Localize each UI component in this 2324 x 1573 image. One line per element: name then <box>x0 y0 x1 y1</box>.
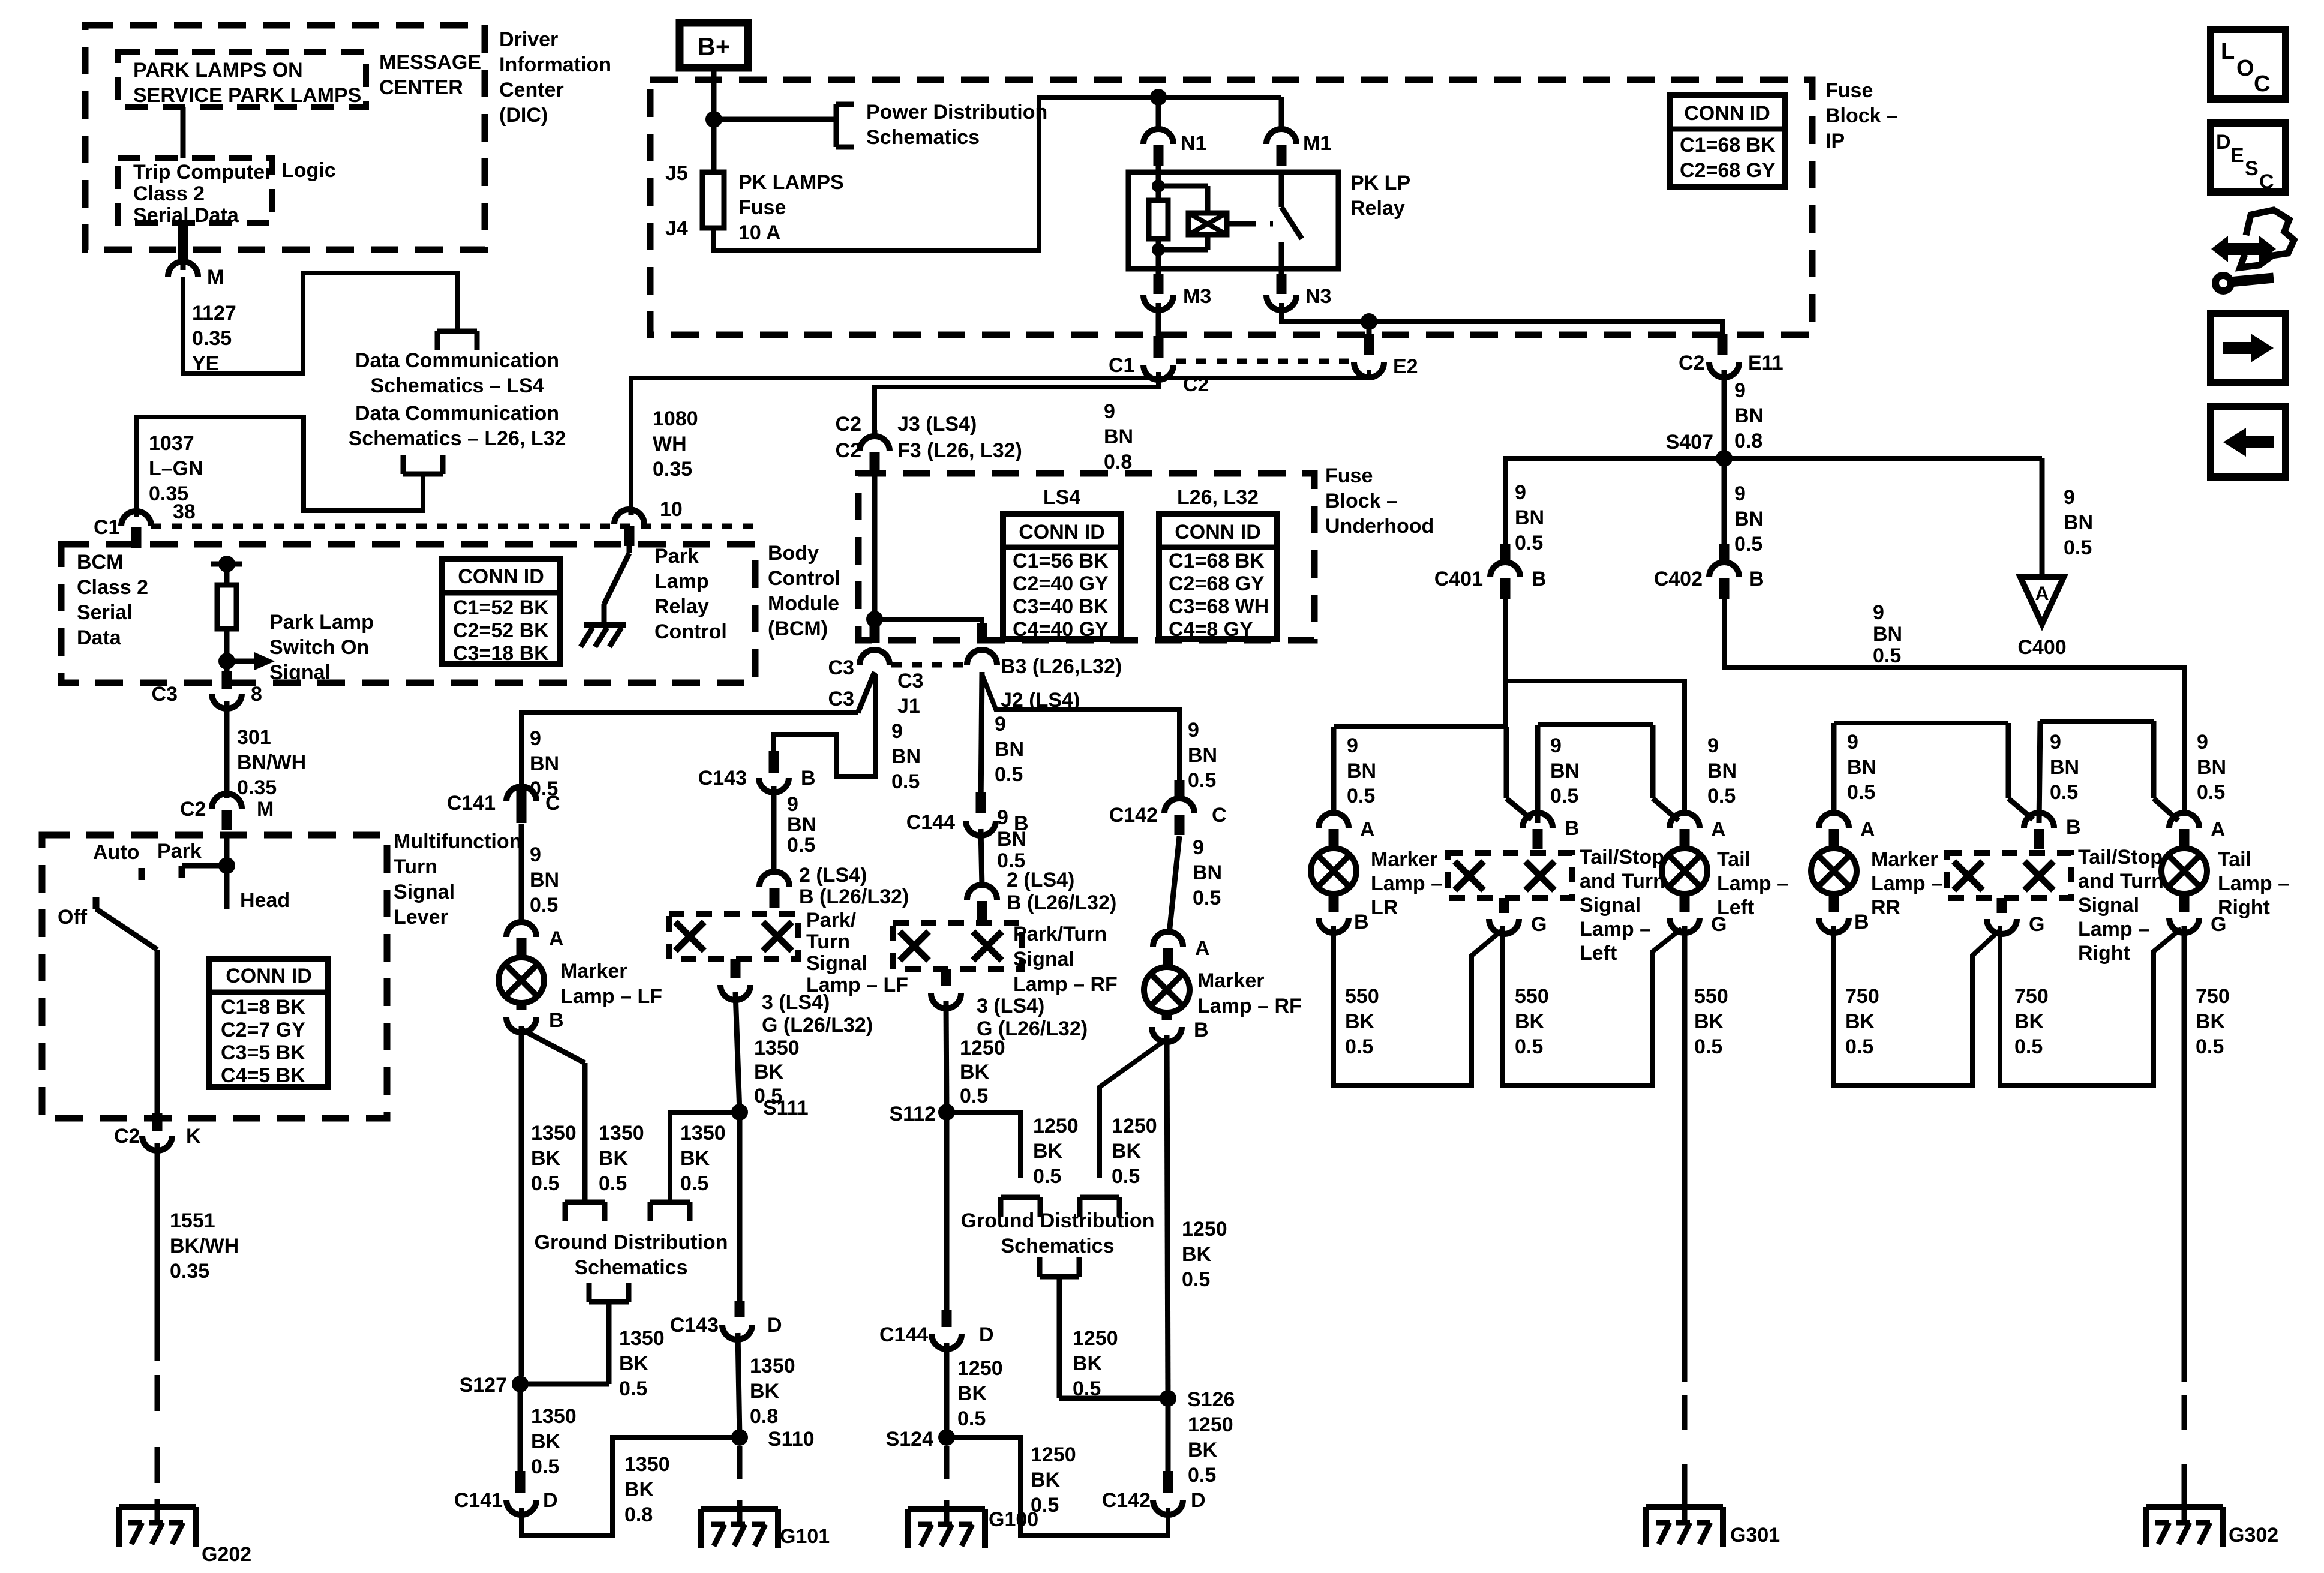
connector G park/turn LF <box>720 959 750 1000</box>
svg-text:9: 9 <box>1873 601 1884 624</box>
svg-text:BN: BN <box>530 752 559 775</box>
label wire 9 BN 0.5 rear2 <box>1550 734 1580 807</box>
wire C141 to marker A <box>519 824 524 924</box>
svg-text:BN: BN <box>1847 756 1876 779</box>
svg-text:PK LP: PK LP <box>1350 172 1410 194</box>
connector N3 of relay <box>1266 269 1331 310</box>
svg-text:C141: C141 <box>454 1489 503 1512</box>
wire relay coil top <box>1156 166 1161 200</box>
label wire 1350 BK 0.8 low <box>624 1453 670 1526</box>
label wire 1250 BK 0.5 C142D <box>1031 1443 1076 1517</box>
label Ground Distribution Schematics right <box>961 1209 1155 1257</box>
svg-text:CONN ID: CONN ID <box>458 565 544 588</box>
wire G RF to S112 <box>946 1001 947 1112</box>
svg-text:Tail/Stop: Tail/Stop <box>1580 846 1664 869</box>
svg-text:10 A: 10 A <box>738 221 781 244</box>
svg-text:1250: 1250 <box>1073 1327 1118 1350</box>
svg-text:Block –: Block – <box>1825 104 1898 127</box>
svg-text:0.5: 0.5 <box>1345 1035 1373 1058</box>
svg-text:C1: C1 <box>94 516 119 539</box>
svg-text:2 (LS4): 2 (LS4) <box>1007 869 1074 891</box>
label pins 3 LS4 G L26/L32 RF <box>977 995 1088 1040</box>
dotted connector row C1-E2 <box>1176 359 1352 364</box>
node internal supply bar <box>211 556 242 572</box>
svg-text:0.35: 0.35 <box>192 327 232 350</box>
icon vehicle with arrow and wrench <box>2211 210 2294 291</box>
connector B marker RR <box>1819 895 1869 933</box>
connector B marker RF <box>1152 1013 1209 1042</box>
svg-text:M: M <box>207 266 224 289</box>
svg-text:C142: C142 <box>1102 1489 1151 1512</box>
wire switch output <box>155 950 160 1131</box>
svg-text:C2: C2 <box>1679 352 1704 374</box>
svg-text:and Turn: and Turn <box>1580 870 1665 893</box>
svg-text:BCM: BCM <box>77 551 123 574</box>
svg-text:BK: BK <box>2014 1010 2044 1033</box>
wire C3 to C141 <box>521 672 875 787</box>
svg-text:Relay: Relay <box>654 595 709 618</box>
wire B3 to C144 <box>981 672 982 813</box>
label Park/Turn Signal Lamp RF <box>1013 923 1118 996</box>
svg-text:BN: BN <box>1188 744 1217 767</box>
svg-text:E: E <box>2230 144 2244 167</box>
wire tail/stop right G loop <box>2000 926 2181 1085</box>
svg-text:0.5: 0.5 <box>1193 887 1221 909</box>
connector C142 pin C <box>1109 780 1227 835</box>
svg-text:Control: Control <box>654 620 727 643</box>
svg-text:J1: J1 <box>897 695 920 718</box>
switch blade headlamp switch <box>96 909 157 950</box>
label wire 1551 BK/WH 0.35 <box>170 1209 239 1283</box>
wire B+ into fuse block <box>711 68 717 172</box>
svg-text:Control: Control <box>768 567 840 590</box>
connector N1 of relay <box>1143 129 1206 166</box>
wire C141 D to S110 <box>521 1437 738 1536</box>
svg-text:Tail/Stop: Tail/Stop <box>2078 846 2163 869</box>
svg-text:301: 301 <box>237 726 271 749</box>
label wire 9 BN 0.5 C402 upper <box>1734 482 1764 556</box>
wire C1 to C2 underhood <box>875 372 1158 430</box>
svg-text:9: 9 <box>530 843 541 866</box>
svg-text:9: 9 <box>995 713 1006 736</box>
logic box Trip Computer <box>118 158 272 223</box>
svg-text:B: B <box>801 767 816 789</box>
svg-text:D: D <box>543 1489 558 1512</box>
connector A marker LR <box>1319 811 1375 849</box>
label wire 1127 0.35 YE <box>192 302 236 375</box>
connector B tail/stop left <box>1523 813 1580 849</box>
wire fuse to relay contacts <box>714 97 1281 251</box>
wire message-to-logic <box>181 107 186 158</box>
filament X RF left <box>900 932 929 960</box>
svg-text:9: 9 <box>891 720 903 743</box>
connector C1 of BCM <box>94 511 151 548</box>
svg-text:B: B <box>1854 911 1869 933</box>
svg-text:0.5: 0.5 <box>1182 1268 1210 1291</box>
svg-text:S: S <box>2245 157 2259 180</box>
svg-text:C2: C2 <box>836 439 861 462</box>
contact Off <box>93 897 100 909</box>
svg-text:1037: 1037 <box>149 432 194 455</box>
svg-text:L26, L32: L26, L32 <box>1177 486 1259 509</box>
svg-text:C400: C400 <box>2017 636 2066 659</box>
connector A marker RR <box>1819 813 1875 849</box>
svg-text:550: 550 <box>1345 985 1379 1008</box>
node underhood split <box>866 611 982 642</box>
svg-text:0.5: 0.5 <box>2014 1035 2043 1058</box>
lamp box tail/stop left <box>1448 853 1572 898</box>
connector C142 pin D <box>1102 1489 1206 1515</box>
svg-text:1350: 1350 <box>531 1122 577 1145</box>
svg-text:J4: J4 <box>665 217 688 240</box>
label wire 9 BN 0.5 C401 upper <box>1515 481 1544 554</box>
connector B park/turn RF <box>967 885 997 921</box>
label J5 <box>665 162 688 185</box>
svg-text:Turn: Turn <box>394 855 437 878</box>
contact Auto <box>139 868 145 880</box>
svg-text:Auto: Auto <box>93 841 139 864</box>
connector C1 C2 fuse block IP <box>1109 354 1209 396</box>
wire E11 to S407 <box>1722 370 1727 458</box>
connector C2 pin M of switch <box>180 794 274 830</box>
label pin 38 <box>173 500 196 523</box>
node E2 branch <box>1361 313 1377 355</box>
svg-text:0.5: 0.5 <box>1707 785 1736 807</box>
svg-text:0.5: 0.5 <box>2050 781 2078 804</box>
svg-text:550: 550 <box>1694 985 1728 1008</box>
off-page ground distribution left B <box>650 1202 690 1221</box>
svg-text:CONN ID: CONN ID <box>1019 521 1105 544</box>
svg-text:Signal: Signal <box>394 881 455 903</box>
svg-text:Signal: Signal <box>269 661 331 684</box>
connector B marker LR <box>1319 895 1369 933</box>
relay suppression diode <box>1188 186 1227 250</box>
label Body Control Module (BCM) <box>768 542 840 640</box>
svg-text:Marker: Marker <box>1197 969 1265 992</box>
label wire 9 BN 0.5 C400 <box>2064 486 2093 559</box>
svg-text:Underhood: Underhood <box>1325 515 1434 538</box>
wire S112 to bracket <box>947 1112 1020 1178</box>
wire C144 D to S124 <box>944 1343 950 1437</box>
wire C3 to C143 jog <box>774 674 876 776</box>
svg-text:PARK LAMPS ON: PARK LAMPS ON <box>133 59 303 82</box>
svg-text:0.35: 0.35 <box>653 458 692 481</box>
ground G100 <box>908 1500 1038 1548</box>
label J4 <box>665 217 688 240</box>
wire dashed to G202 <box>155 1375 160 1485</box>
ground G101 <box>701 1500 830 1548</box>
module box Body Control Module <box>61 544 755 683</box>
svg-text:G101: G101 <box>780 1525 830 1548</box>
wire staple outer right rear <box>1834 723 2033 819</box>
wire marker RF B to S126 <box>1167 1035 1168 1398</box>
label LS4 <box>1043 486 1080 509</box>
svg-text:0.5: 0.5 <box>1033 1165 1061 1188</box>
svg-text:Lamp –: Lamp – <box>1871 872 1942 895</box>
wire 301 BN/WH <box>224 701 230 798</box>
svg-text:Schematics: Schematics <box>575 1256 688 1279</box>
svg-text:9: 9 <box>787 793 798 816</box>
svg-text:A: A <box>2035 583 2049 604</box>
label wire 9 BN 0.5 C142 lower <box>1193 836 1222 909</box>
connector B tail/stop right <box>2024 813 2081 849</box>
resistor BCM pull-up <box>217 564 236 661</box>
svg-text:Schematics: Schematics <box>866 126 980 149</box>
svg-text:0.5: 0.5 <box>1845 1035 1873 1058</box>
svg-text:0.5: 0.5 <box>995 763 1023 786</box>
svg-text:BN: BN <box>2197 756 2226 779</box>
svg-text:E11: E11 <box>1748 352 1783 374</box>
wire tail lamp left G to G301 <box>1682 926 1688 1382</box>
label wire 1250 BK 0.5 markerRF <box>1182 1218 1227 1291</box>
svg-text:9: 9 <box>1188 719 1199 742</box>
svg-text:S110: S110 <box>768 1428 815 1451</box>
node S110 <box>731 1428 815 1451</box>
connector B marker LF <box>506 1003 564 1032</box>
filament X tail/stop left 1 <box>1455 861 1484 890</box>
wire inside underhood block <box>872 458 878 642</box>
connector G park/turn RF <box>931 969 961 1008</box>
svg-text:BK: BK <box>2196 1010 2226 1033</box>
label wire 1350 BK 0.8 <box>750 1355 795 1428</box>
svg-text:750: 750 <box>1845 985 1879 1008</box>
svg-text:8: 8 <box>251 683 262 706</box>
connector G tail lamp left <box>1670 895 1727 936</box>
wire 1551 BK/WH <box>155 1143 160 1361</box>
svg-text:1250: 1250 <box>1112 1115 1157 1137</box>
connector C144 pin D <box>879 1323 994 1349</box>
lamp tail right <box>2161 848 2207 894</box>
svg-text:C1=52 BK: C1=52 BK <box>453 596 549 619</box>
svg-text:BN: BN <box>995 738 1024 761</box>
svg-text:BN: BN <box>787 813 816 836</box>
svg-text:B: B <box>1749 568 1764 590</box>
svg-text:S124: S124 <box>886 1428 933 1451</box>
svg-text:C: C <box>1212 804 1227 827</box>
svg-text:Data Communication: Data Communication <box>355 402 559 425</box>
svg-text:BK: BK <box>1694 1010 1724 1033</box>
filament X LF left <box>675 922 704 951</box>
svg-text:N1: N1 <box>1181 132 1206 155</box>
svg-text:Lamp –: Lamp – <box>1580 918 1651 941</box>
svg-text:BN: BN <box>1193 861 1222 884</box>
svg-text:G: G <box>1531 913 1547 936</box>
svg-text:B: B <box>2066 816 2081 839</box>
svg-text:Body: Body <box>768 542 819 565</box>
node S407 <box>1666 431 1733 467</box>
label Trip Computer Class 2 Serial Data <box>133 161 272 227</box>
svg-text:BK: BK <box>1515 1010 1545 1033</box>
lamp marker LR <box>1311 848 1356 894</box>
svg-text:C2=52 BK: C2=52 BK <box>453 619 549 642</box>
relay coil resistor <box>1149 200 1168 269</box>
svg-text:B: B <box>1532 568 1547 590</box>
svg-text:CONN ID: CONN ID <box>1175 521 1261 544</box>
svg-text:Class 2: Class 2 <box>77 576 148 599</box>
svg-text:BK: BK <box>1033 1140 1063 1163</box>
label wire 9 BN 0.5 rear4 <box>1847 731 1876 804</box>
svg-text:BK: BK <box>957 1382 987 1405</box>
label Data Communication Schematics - L26 L32 <box>349 402 566 450</box>
svg-text:M3: M3 <box>1183 285 1211 308</box>
svg-text:YE: YE <box>192 352 219 375</box>
svg-text:9: 9 <box>2064 486 2075 509</box>
label wire 9 BN 0.5 C402 span <box>1873 601 1902 667</box>
svg-text:C4=5 BK: C4=5 BK <box>221 1064 305 1087</box>
label Head <box>240 889 290 912</box>
svg-text:0.5: 0.5 <box>531 1455 559 1478</box>
lamp marker RF <box>1144 967 1190 1013</box>
wire C143 to lamp LF <box>771 786 777 873</box>
svg-text:Park: Park <box>157 840 202 863</box>
node relay feed branch <box>1150 89 1167 130</box>
svg-text:Fuse: Fuse <box>1825 79 1873 102</box>
svg-text:Right: Right <box>2078 942 2130 965</box>
lamp box park/turn LF <box>669 914 798 959</box>
svg-text:C: C <box>2259 170 2274 193</box>
wire C144 to lamp RF <box>981 829 982 887</box>
svg-text:Logic: Logic <box>281 159 336 182</box>
svg-text:C1=56 BK: C1=56 BK <box>1013 550 1109 572</box>
label Fuse Block Underhood <box>1325 464 1434 538</box>
svg-text:BK: BK <box>619 1352 649 1375</box>
lamp box tail/stop right <box>1947 853 2071 898</box>
label wire 9 BN 0.8 <box>1104 400 1133 473</box>
svg-text:1350: 1350 <box>754 1037 800 1059</box>
svg-text:1080: 1080 <box>653 407 698 430</box>
svg-text:S407: S407 <box>1666 431 1713 454</box>
svg-text:0.35: 0.35 <box>237 776 277 799</box>
svg-text:Signal: Signal <box>806 952 867 975</box>
svg-text:9: 9 <box>1550 734 1562 757</box>
wire dashed to G100 <box>944 1446 950 1503</box>
connector pin 10 of BCM <box>614 498 683 546</box>
label wire 1250 BK 0.5 S112a <box>1033 1115 1079 1188</box>
label Tail/Stop and Turn Signal Lamp Left <box>1580 846 1665 965</box>
connector A tail lamp right <box>2169 813 2226 849</box>
svg-text:Fuse: Fuse <box>1325 464 1373 487</box>
connector G tail/stop left <box>1489 898 1547 936</box>
label wire 750 BK 0.5 a <box>1845 985 1879 1058</box>
node S127 <box>460 1374 609 1397</box>
icon LOC <box>2211 29 2286 99</box>
svg-text:C4=40 GY: C4=40 GY <box>1013 618 1109 641</box>
label wire 1250 BK 0.5 RF <box>960 1037 1005 1107</box>
svg-text:(BCM): (BCM) <box>768 617 828 640</box>
wire N3 to E2 E11 <box>1281 303 1722 334</box>
label wire 1350 BK 0.5 return <box>619 1327 665 1400</box>
svg-text:A: A <box>2211 818 2226 841</box>
wire dashed to G101 <box>737 1446 743 1503</box>
off-page ground distribution left return <box>589 1283 629 1384</box>
label wire 1250 BK 0.5 C144D <box>957 1357 1003 1430</box>
wire S112 to C144 D <box>944 1115 950 1327</box>
svg-text:9: 9 <box>1847 731 1858 754</box>
wire dashed to G302 <box>2182 1395 2187 1500</box>
connector C3 pin 8 of BCM <box>152 683 262 709</box>
svg-text:Head: Head <box>240 889 290 912</box>
svg-text:Lamp – RF: Lamp – RF <box>1013 973 1118 996</box>
connector M3 of relay <box>1143 269 1211 310</box>
svg-text:M1: M1 <box>1303 132 1331 155</box>
label wire 1080 WH 0.35 <box>653 407 698 481</box>
label wire 9 BN 0.5 J1 <box>891 720 921 793</box>
svg-text:C1=68 BK: C1=68 BK <box>1680 134 1776 157</box>
off-page ground distribution right return <box>1040 1257 1168 1398</box>
svg-text:BN: BN <box>1347 760 1376 782</box>
wire dashed to G301 <box>1682 1395 1688 1500</box>
svg-text:A: A <box>1195 937 1210 960</box>
label PK LP Relay <box>1350 172 1410 220</box>
svg-text:B (L26/L32): B (L26/L32) <box>799 885 909 908</box>
svg-text:Left: Left <box>1580 942 1617 965</box>
label Multifunction Turn Signal Lever <box>394 830 521 929</box>
svg-text:1250: 1250 <box>1031 1443 1076 1466</box>
svg-text:BK: BK <box>754 1061 784 1083</box>
label Park <box>157 840 202 863</box>
wire to M1 <box>1279 97 1284 130</box>
table CONN ID of IP fuse block <box>1670 95 1785 187</box>
svg-text:BK: BK <box>960 1061 990 1083</box>
wire B3 to C142 <box>982 674 1179 800</box>
svg-text:and Turn: and Turn <box>2078 870 2164 893</box>
svg-text:3 (LS4): 3 (LS4) <box>762 991 830 1014</box>
label wire 9 BN 0.5 B3 <box>995 713 1024 786</box>
label wire 1350 BK 0.5 markerB <box>531 1122 577 1195</box>
svg-text:BK: BK <box>1031 1469 1061 1491</box>
svg-text:Tail: Tail <box>2218 848 2251 871</box>
svg-text:A: A <box>549 927 564 950</box>
label Park/Turn Signal Lamp LF <box>806 909 908 996</box>
svg-text:Lamp: Lamp <box>654 570 709 593</box>
svg-text:Marker: Marker <box>1871 848 1938 871</box>
svg-text:C1=8 BK: C1=8 BK <box>221 996 305 1019</box>
label Marker Lamp RR <box>1871 848 1942 919</box>
svg-text:0.8: 0.8 <box>750 1405 778 1428</box>
svg-text:750: 750 <box>2014 985 2049 1008</box>
label L26 L32 <box>1177 486 1259 509</box>
svg-text:CONN ID: CONN ID <box>226 965 312 987</box>
svg-text:0.5: 0.5 <box>2196 1035 2224 1058</box>
wire S111 to bracket <box>670 1112 740 1202</box>
svg-text:G202: G202 <box>202 1543 251 1566</box>
svg-text:C142: C142 <box>1109 804 1158 827</box>
wire C402 to right rear group <box>1724 586 2184 813</box>
svg-text:Signal: Signal <box>2078 894 2139 917</box>
label wire 9 BN 0.5 rear1 <box>1347 734 1376 807</box>
filament X tail/stop right 2 <box>2025 861 2053 890</box>
svg-text:0.5: 0.5 <box>619 1377 647 1400</box>
svg-text:B: B <box>1354 911 1369 933</box>
label wire 9 BN 0.5 C144 <box>997 806 1026 872</box>
svg-text:BK: BK <box>750 1380 780 1403</box>
off-page ground distribution right B <box>1080 1197 1119 1217</box>
label wire 9 BN 0.5 C143 <box>787 793 816 857</box>
table CONN ID of switch <box>209 959 328 1087</box>
label Ground Distribution Schematics left <box>535 1231 728 1279</box>
connector C401 pin B <box>1434 544 1547 599</box>
svg-text:B: B <box>549 1009 564 1032</box>
wire logic to connector M <box>181 223 186 270</box>
label Marker Lamp LR <box>1371 848 1442 919</box>
label Marker Lamp RF <box>1197 969 1302 1017</box>
svg-text:Trip Computer: Trip Computer <box>133 161 272 184</box>
wire G LF to S111 <box>735 992 740 1112</box>
svg-text:Data Communication: Data Communication <box>355 349 559 372</box>
connector C402 pin B <box>1654 544 1764 599</box>
svg-text:CONN ID: CONN ID <box>1684 102 1770 125</box>
wire to power distribution <box>714 117 836 122</box>
